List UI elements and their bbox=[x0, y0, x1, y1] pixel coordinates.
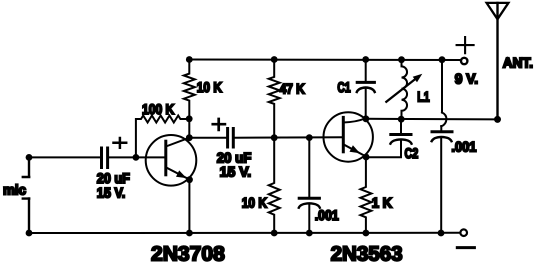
node: 10K bottom on ground rail bbox=[271, 230, 278, 237]
svg-text:C2: C2 bbox=[405, 145, 419, 161]
svg-text:2N3708: 2N3708 bbox=[151, 242, 225, 265]
transistor Q1 collector lead bbox=[166, 138, 189, 147]
capacitor .001 supply bypass bottom lead bbox=[440, 139, 442, 234]
resistor R 47K (Q2 base bias, vertical) bbox=[269, 60, 280, 138]
transistor Q2 2N3563 (NPN) circle bbox=[324, 112, 373, 161]
node: 100K / 10K / Q1 collector riser junction bbox=[186, 115, 193, 122]
node: 47K/10K/base-wire junction bbox=[271, 134, 278, 141]
wire: battery drop wire upper part bbox=[441, 60, 443, 113]
resistor R 1K (Q2 emitter, vertical) bbox=[360, 157, 371, 233]
node: Q2 emitter / C2 / 1K junction bbox=[363, 154, 370, 161]
node: 1K bottom on ground rail bbox=[363, 230, 370, 237]
battery plus sign bbox=[457, 37, 474, 53]
wire: Q1 collector node to interstage cap bbox=[189, 137, 226, 139]
capacitor .001 base bypass: top lead bbox=[308, 138, 310, 197]
transistor Q1 emitter lead bbox=[166, 167, 190, 179]
node: C1 top on supply rail bbox=[362, 56, 369, 63]
capacitor C2 top lead from tank rail bbox=[400, 119, 402, 133]
wire: collector/tank rail to antenna bbox=[366, 118, 498, 121]
polarity plus sign of interstage 20uF bbox=[213, 119, 225, 130]
capacitor .001 bottom lead bbox=[308, 205, 310, 233]
wire: ground bottom rail bbox=[29, 232, 460, 234]
node: mic top terminal bbox=[26, 154, 33, 161]
wire: mic to C-in capacitor bbox=[29, 156, 100, 158]
capacitor C2 flat plate bbox=[391, 133, 411, 136]
wire crossover hop over tank rail (no connection) bbox=[441, 113, 446, 127]
transistor Q2 emitter lead bbox=[343, 144, 366, 156]
capacitor C1 top lead from supply rail bbox=[365, 60, 367, 81]
node: mic bottom terminal on ground rail bbox=[26, 230, 33, 237]
node: Q1 collector node bbox=[186, 134, 193, 141]
battery minus sign bbox=[457, 246, 474, 249]
svg-text:.001: .001 bbox=[315, 207, 339, 223]
transistor Q1 2N3708 (NPN) circle bbox=[146, 135, 197, 186]
battery negative terminal (open circle) bbox=[460, 229, 467, 236]
node: Q1 emitter on ground rail bbox=[186, 230, 193, 237]
antenna vertical lead bbox=[496, 3, 498, 119]
capacitor C1 curved plate bbox=[357, 88, 375, 93]
transistor Q2 collector lead bbox=[343, 118, 366, 123]
wire: drop wire to .001 bypass cap bbox=[440, 126, 442, 130]
node: L1 top on supply rail bbox=[398, 56, 405, 63]
svg-text:.001: .001 bbox=[451, 138, 476, 154]
resistor R 100K (feedback, horizontal) with riser wire bbox=[136, 116, 189, 158]
wire: interstage cap to Q2 base bbox=[235, 136, 344, 139]
svg-text:10 K: 10 K bbox=[197, 79, 222, 95]
antenna triangle symbol bbox=[487, 3, 509, 19]
node: .001 bottom on ground rail bbox=[306, 230, 313, 237]
inductor L1 adjust arrowhead bbox=[413, 74, 423, 83]
capacitor .001 supply bypass curved plate bbox=[432, 137, 452, 141]
svg-text:L1: L1 bbox=[417, 88, 429, 104]
microphone MIC (crystal mic bracket symbol) bbox=[23, 157, 29, 233]
capacitor .001 supply bypass flat plate bbox=[432, 130, 452, 133]
capacitor .001 curved plate bbox=[299, 203, 320, 207]
svg-text:ANT.: ANT. bbox=[503, 55, 533, 71]
svg-text:9 V.: 9 V. bbox=[455, 70, 478, 86]
node: Q1 emitter exit bbox=[186, 176, 193, 183]
node: Q2 collector / C1 / rail junction bbox=[363, 115, 370, 122]
node: antenna tap on tank rail bbox=[494, 116, 501, 123]
wire: Q1 emitter to ground bbox=[188, 180, 190, 233]
capacitor C1 bottom lead bbox=[365, 89, 367, 119]
svg-text:15 V.: 15 V. bbox=[220, 164, 252, 180]
node: 47K top on supply rail bbox=[271, 56, 278, 63]
svg-text:1 K: 1 K bbox=[372, 194, 392, 210]
svg-text:15 V.: 15 V. bbox=[97, 184, 126, 200]
node: supply rail to battery drop wire bbox=[439, 56, 446, 63]
node: Q1 base / 100K junction bbox=[133, 154, 140, 161]
wire: +9V top supply rail bbox=[189, 59, 459, 62]
node: .001 top junction on base wire bbox=[306, 134, 313, 141]
capacitor C1 flat plate bbox=[357, 81, 374, 84]
svg-text:47 K: 47 K bbox=[280, 81, 305, 97]
svg-text:C1: C1 bbox=[337, 79, 350, 95]
transistor Q1 base bar bbox=[164, 141, 167, 175]
transistor Q2 emitter arrowhead bbox=[350, 145, 361, 153]
transistor Q1 emitter arrowhead bbox=[176, 170, 187, 178]
resistor R 10K (Q1 collector load, vertical) bbox=[184, 60, 195, 138]
svg-text:10 K: 10 K bbox=[242, 194, 267, 210]
capacitor .001 flat plate bbox=[299, 197, 319, 200]
svg-text:mic: mic bbox=[3, 182, 26, 198]
capacitor C2 curved plate bbox=[390, 139, 411, 143]
node: L1 bottom / C2 top junction on tank rail bbox=[398, 116, 405, 123]
transistor Q2 base bar bbox=[342, 117, 345, 151]
node: bypass cap bottom on ground rail bbox=[438, 230, 445, 237]
inductor L1 adjust arrow shaft bbox=[386, 76, 418, 101]
wire: C-in capacitor to Q1 base bbox=[109, 156, 166, 158]
node: 10K top on supply rail bbox=[186, 56, 193, 63]
polarity plus sign of input 20uF bbox=[114, 138, 127, 148]
resistor R 10K (Q2 base to ground, vertical) bbox=[269, 138, 280, 233]
capacitor 20uF interstage coupling (polarized) bbox=[228, 129, 234, 148]
svg-text:2N3563: 2N3563 bbox=[331, 243, 403, 266]
inductor L1 (variable) coil bbox=[402, 60, 408, 120]
capacitor 20uF input coupling (polarized, two bars) bbox=[102, 148, 108, 168]
battery positive terminal (open circle) bbox=[461, 58, 467, 64]
svg-text:100 K: 100 K bbox=[142, 101, 174, 117]
capacitor C2 bottom lead to Q2 emitter bbox=[366, 141, 401, 157]
